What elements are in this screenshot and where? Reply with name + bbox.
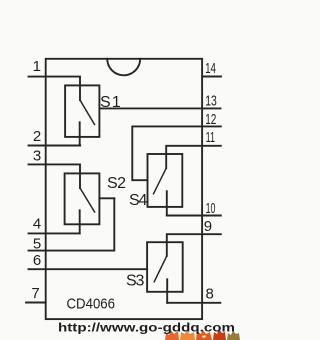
svg-text:7: 7 <box>31 285 39 302</box>
IC body U1 CD4066 outline <box>46 59 202 319</box>
svg-text:12: 12 <box>205 111 216 128</box>
pin 12 wire <box>132 126 221 180</box>
svg-text:S2: S2 <box>107 175 126 192</box>
svg-text:11: 11 <box>206 129 215 146</box>
svg-text:1: 1 <box>33 58 41 75</box>
pin 9 wire <box>167 234 221 256</box>
svg-text:2: 2 <box>33 128 41 145</box>
S2 output stub to pin 4 wire <box>79 210 81 233</box>
pin 1 wire <box>29 77 81 100</box>
svg-text:http://www.go-gddq.com: http://www.go-gddq.com <box>58 321 235 335</box>
pin 6 wire <box>29 268 148 270</box>
svg-text:S3: S3 <box>126 273 144 290</box>
switch S1 box <box>65 85 99 136</box>
switch S4 lever <box>154 168 167 194</box>
notch (pin-1 end indicator) <box>107 59 140 76</box>
switch S2 lever <box>80 188 95 212</box>
S1 output stub to pin 2 wire <box>79 122 81 145</box>
pin 7 wire <box>26 302 46 304</box>
svg-text:5: 5 <box>33 235 41 252</box>
pin 14 wire <box>202 76 221 78</box>
svg-text:6: 6 <box>33 252 41 269</box>
svg-text:13: 13 <box>205 93 217 110</box>
pin 5 wire <box>29 198 115 250</box>
svg-text:4: 4 <box>33 215 41 232</box>
switch S4 box <box>148 154 183 207</box>
watermark red logo fragment <box>165 329 240 340</box>
pin 3 wire <box>29 164 81 188</box>
svg-text:CD4066: CD4066 <box>67 296 116 313</box>
wire S2 right side to pin 5 riser <box>99 197 114 199</box>
switch S3 lever <box>154 256 167 282</box>
pin 11 wire <box>166 146 221 168</box>
S3 bottom stub to pin 8 wire <box>166 279 168 303</box>
svg-text:8: 8 <box>206 285 214 302</box>
pin 10 wire <box>167 215 221 217</box>
pin 4 wire <box>29 232 80 234</box>
svg-text:S4: S4 <box>129 192 147 209</box>
pin 8 wire <box>167 302 220 304</box>
svg-text:14: 14 <box>205 60 216 77</box>
svg-text:9: 9 <box>204 218 212 235</box>
svg-text:10: 10 <box>206 200 216 217</box>
svg-text:S1: S1 <box>100 94 122 111</box>
pin 2 wire <box>29 145 81 147</box>
switch S2 box <box>65 173 100 224</box>
pin 13 wire / S1 output <box>99 107 220 109</box>
svg-text:3: 3 <box>33 148 41 165</box>
switch S3 box <box>147 242 183 292</box>
S4 bottom stub to pin 10 wire <box>166 191 168 215</box>
switch S1 lever <box>80 100 95 125</box>
